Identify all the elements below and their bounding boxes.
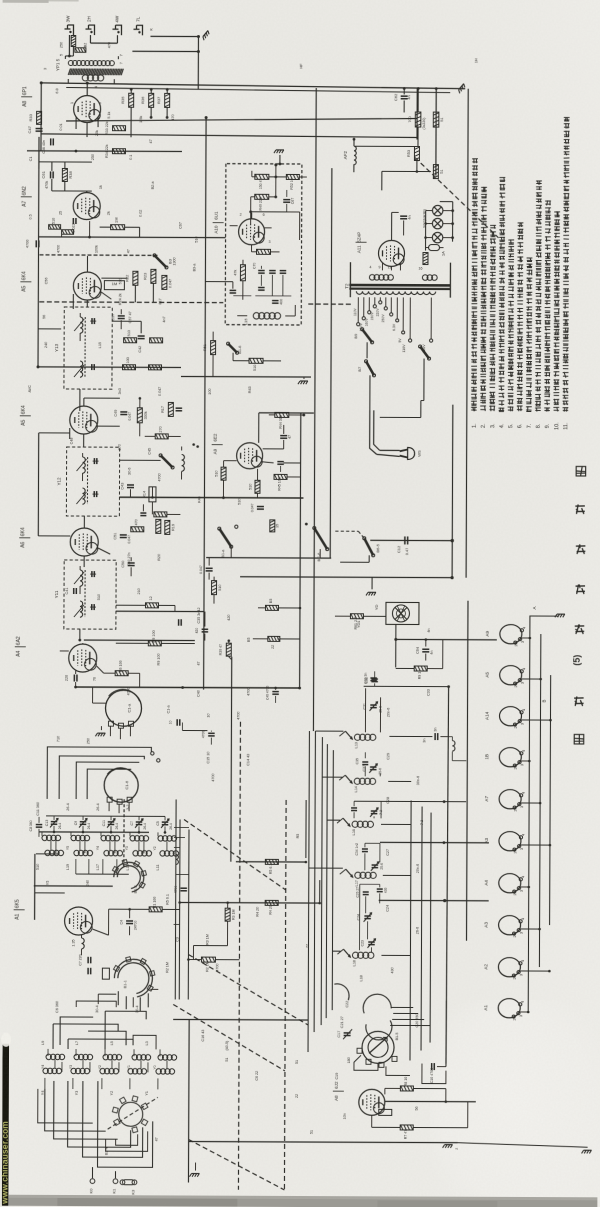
branding strip [2,1044,9,1206]
tube V5 [70,406,98,434]
wire ground stub2 [303,377,305,379]
terminal K1 [113,1179,118,1184]
wire rail x452 [451,405,454,578]
wire jack3 stub [89,35,91,43]
wire trimmer C11 leads [110,816,112,820]
resistor R52 [249,358,263,363]
switch contact B1-w [345,731,352,739]
wire sec1 rect [364,688,366,732]
resistor R42 [212,581,217,595]
wire y946 [193,945,227,947]
resistor R26 [150,338,163,343]
resistor R1 [149,907,162,912]
capacitor C73 [258,287,264,289]
wire bus y1101 [385,1100,476,1102]
wire below box [232,353,234,361]
wire loop L2 [59,756,144,799]
wire bus y238 [39,236,226,239]
capacitor C63 [400,215,407,217]
resistor R20 [131,527,144,532]
wire trimmer C9 leads [82,816,84,820]
wire dash diag top [415,157,499,237]
transformer YP1 secondary [82,75,88,81]
wire V9 right [93,929,109,935]
wire R46 leads [223,461,225,468]
wire base stub 6 [521,844,550,846]
wire left rail x39 top [40,83,42,151]
tube V7 [237,443,263,469]
node V7 grid [235,525,238,528]
tube base A2 [498,958,520,977]
note line 5 text [508,406,514,408]
wire R39 [228,641,230,644]
resistor R54 (3x220) [415,112,421,127]
choke AF2 [354,146,356,164]
trimmer C7 26-4 [136,821,142,823]
resistor R45 [274,474,287,479]
capacitor C57a [118,315,125,317]
wire jack drop x196 [197,37,199,90]
wire y900 dot [443,899,446,902]
wire jack2 stub [68,35,70,56]
branding glow [1,1033,11,1047]
jack J2 [88,25,94,35]
wire dash to B6 [335,530,358,532]
wire V6 left loop [37,433,39,536]
note line 1 text [471,406,477,408]
resistor R53 [414,146,419,160]
wire tubebase bus x551 [550,675,551,925]
capacitor C62 [401,95,408,97]
inductor L27 lower row [74,850,79,855]
bottom scan bar [0,1195,597,1207]
wire jack bus [132,50,198,52]
tube V9 6K5 [65,907,93,935]
wire R8 [385,1087,400,1089]
tube V3 [73,272,101,300]
inductor L16 [352,821,358,827]
wire R3 leads [227,903,229,908]
wire bundle x334 [332,750,333,1010]
fuse BX 1A [429,245,440,251]
wire rail x300 [300,413,301,688]
capacitor Y12 tune 2 [93,491,95,497]
wire loop U7 [133,1035,156,1049]
box V10 cathode [379,1109,392,1115]
wire rotor2 stubs [98,993,116,995]
wire YP1 pins [64,56,66,59]
wire V6 leads [83,516,85,528]
wire bus y1142 [189,1142,458,1143]
wire C50 leads [130,557,132,561]
IF transformer Y12 winding 1 [83,457,86,473]
wire y641-644 [161,639,163,641]
capacitor C14 [73,675,75,682]
wire col x190 [187,830,190,1000]
tube V11 5Z4P [378,240,404,266]
wire loop U3b [67,1039,69,1049]
note line 3 text [489,405,495,407]
wire C14 [75,670,77,674]
wire bus y641 [84,639,195,641]
capacitor C53 [176,407,182,409]
wire C64 [425,640,427,647]
wire C6c leads [204,612,206,627]
tube V2 6N2 [73,193,100,220]
wire bundle x328 [326,744,327,1018]
wire R54 bottom [417,128,419,147]
wire mid cluster [251,196,255,198]
capacitor C36 [351,807,357,809]
wire rail x314 [313,88,316,731]
transformer T1 heater winding b [422,275,428,281]
resistor R3 [225,908,230,921]
trimmer C37 [370,766,376,768]
capacitor C35b [178,619,180,625]
wire y801 out [381,800,466,802]
terminal K2-K3 link [120,1180,125,1185]
wire L5 [181,446,183,450]
wire V5 plate [83,398,85,406]
inductor L15 band2 lower [156,1069,161,1074]
wire bundle x316 [314,731,315,1032]
wire base stub 1 [522,637,530,639]
capacitor C10 [431,1063,433,1070]
capacitor C7c [87,968,89,974]
inductor L26 lower row [45,850,50,855]
wire base stub 10 [520,1011,528,1013]
resistor R22 [133,271,138,285]
wire trimmer C5 leads [164,816,166,820]
wire R62 [395,667,397,668]
IF transformer Y13 winding 1 [80,317,83,333]
trimmer C31 [370,704,376,706]
resistor R50 [257,249,271,254]
wire V11 plate [391,212,393,240]
wire V3 grid row [101,277,127,279]
capacitor C8 [36,824,42,826]
wire shield dash y303 [39,301,223,304]
wire C62 leads [403,88,405,94]
box R14 [149,487,156,502]
capacitor C43 [127,484,134,486]
inductor L22 upper row [71,835,76,840]
switch contact B1-v [343,949,350,957]
capacitor C44 [140,512,146,514]
wire bundle elbow 2 [322,776,343,778]
wire row links [50,841,52,850]
inductor L17 [355,872,361,878]
wire T1 tap 220R [430,298,432,339]
transformer YP1 core [68,68,70,75]
tuning gang C1-a stators [108,721,113,726]
wire bundle x323 [321,737,322,1025]
tube base A3 [499,916,521,935]
switch contact B1-y [343,818,350,826]
wire wafer dash [108,1097,158,1129]
wire bus y900 right [379,899,489,901]
wire R54 top [417,89,419,112]
wire loop L4 [87,769,131,799]
note line 7 text [526,406,532,408]
resistor R24 [162,275,167,289]
wire T1 tap extra [396,297,398,318]
wire R50 [251,245,253,252]
wire V2 mesh [61,232,63,237]
tuning gang C1-b [104,768,138,802]
resistor R9b [148,641,161,646]
transformer T1 core [349,284,450,287]
wire loop L1 [47,747,151,799]
capacitor C5c [208,732,214,734]
capacitor C40b [272,691,278,693]
wire sec5 mesh [360,883,380,885]
resistor R51 [211,341,216,355]
wire AVC bus y368 [38,366,181,369]
wire V7 plate loop [258,413,260,443]
wire bundle x423 [421,807,422,1051]
wire base stub 9 [520,970,549,972]
wire coil bank verticals [41,832,43,836]
ground top right of jacks [202,31,211,41]
resistor R40 [71,35,76,46]
capacitor C69 left [230,289,236,291]
wire left rail x38 mid [37,433,39,536]
wire V8 top [82,643,84,644]
resistor RU [423,253,428,265]
inductor L6 band2 upper [46,1054,51,1059]
capacitor C59 [138,335,145,337]
IF transformer Y11 shield box [64,560,116,629]
tube V8 6A2 [69,644,97,672]
rotor arc left [334,984,349,1000]
inductor L13 band2 lower [100,1068,105,1073]
wire loop U6 [76,1001,116,1007]
wire jacks top [150,35,198,37]
capacitor C51 [120,534,127,536]
wire rail x232 [230,657,233,862]
wire y1142 right [458,1143,588,1148]
resistor R49a [255,194,269,199]
wire gang a leads [109,726,111,736]
left margin light [0,1039,3,1206]
capacitor C50a [35,240,37,247]
wire rail x468 lower [467,601,468,941]
wire B8 down [423,359,425,401]
capacitor Y13 tune 2 [91,364,93,370]
wire V5 cathode [83,434,85,447]
tube base A1 [498,999,520,1018]
inductor L30 lower row [160,851,165,856]
wire bus y152 [27,150,182,153]
wire T1 tap 110 [357,297,359,322]
IF transformer Y13 core [84,317,86,377]
switch contact B1-z [346,869,353,877]
lamp XD3 [432,232,442,242]
wire cord pair [374,410,380,450]
wire T1 tap 110R [409,297,411,338]
ground box lower [298,381,308,384]
wire AF2 leads [353,139,355,146]
resistor R33 [37,111,42,124]
node jack bus [197,35,200,38]
wire T1 tap 0 [390,297,392,312]
trimmer C17 [344,1032,351,1034]
switch contact B1-x [345,775,352,783]
note line 2 text [480,405,486,407]
switch B1-6 [228,344,237,353]
resistor R35 [129,93,134,107]
IF transformer Y12 winding 2 [82,488,85,504]
transformer T1 primary [356,291,435,294]
switch B7 mains [366,361,374,375]
resistor R22s [268,636,280,641]
band switch rotor B1-5 [362,1031,394,1063]
capacitor C60 [50,138,52,145]
wire T1 tap 250 [385,297,387,306]
IF transformer Y12 shield box [66,447,119,516]
wire V11 pins [381,263,383,270]
wire main B+ bus top [41,83,465,89]
resistor R5 [265,859,278,864]
wire Y12 internals [82,453,84,457]
resistor R31 [62,230,74,235]
wire V1 cathode [75,129,77,151]
node row y445 [192,443,195,446]
wire under coils [75,859,77,874]
wire rotor B1-5 tails [354,1055,378,1070]
capacitor C72 [280,270,286,272]
inductor L11 band2 lower [43,1068,48,1073]
wire bus y498 [119,496,303,499]
wire R7 [371,1115,373,1127]
wire V1 pins [75,117,77,129]
bottom scan bar shade [0,1198,597,1207]
capacitor C15c [176,719,178,725]
loudspeaker frame [386,602,419,624]
inductor L15 osc coil [253,313,259,319]
wire loop D2 [83,1081,143,1157]
tube V6 [70,528,98,556]
capacitor C32b [371,678,377,680]
wire rail x449 [446,687,449,1064]
wire loop D7 [116,1134,138,1145]
inductor L21 upper row [42,835,47,840]
tube V1 6P1 [74,96,101,123]
wire C10 loop [422,1064,446,1084]
wire rail x434 [435,89,437,176]
wire bundle elbow 3 [327,819,340,821]
ground mains [366,592,376,595]
resistor R30 [49,225,61,230]
tube base 1B [499,748,521,767]
resistor R15 [154,512,167,517]
wire y842 dot [443,841,446,844]
trimmer C38 [371,810,377,812]
wire y171 link [382,170,431,172]
wire rail x415 [416,89,418,140]
wire R6 [97,666,104,673]
wire lamp left rail [426,210,433,212]
resistor R17 [168,402,173,416]
switch B4-a [161,455,173,467]
IF transformer Y11 core [84,570,86,617]
wire ground bus y577 [240,576,452,579]
wire B6 bottom [368,555,370,562]
ground bus top right [457,84,466,94]
trimmer C11 26-4 [108,821,114,823]
wire bus y862 [236,861,306,863]
wire y606 [116,604,145,606]
jack J1 [67,25,73,35]
resistor R36 [149,93,154,107]
resistor B5r [265,605,278,610]
IF transformer Y13 winding 2 [80,361,83,377]
wire Y13 out [112,320,141,322]
caption char [574,697,584,699]
capacitor C61 [50,171,52,178]
caption char [576,585,586,587]
capacitor C75 [280,435,287,437]
wire bus y842 right [380,841,489,843]
wire box mesh [242,260,244,265]
wire bundle x310 [308,731,309,1052]
wire tubebase bus x541 [539,634,540,967]
tube base A14 [499,707,521,726]
inductor L14 band2 lower [128,1069,133,1074]
wire loop U2b [52,1024,54,1049]
tuning gang C1-b stators [107,797,112,802]
capacitor C34 [362,848,368,850]
wire speaker bottom [395,624,397,667]
capacitor C49 [120,411,127,413]
inductor L3 [81,938,84,949]
capacitor C6c [202,628,208,630]
wire Y13 bottoms [79,389,81,411]
resistor R28 [123,365,136,370]
resistor R6 [115,671,128,676]
lamp XD2 [432,218,442,228]
resistor R33a [113,126,126,131]
wire col x177 [174,799,177,999]
wire base stub 8 [521,928,540,930]
tuning gang C1-a [105,690,141,726]
caption char [574,734,584,744]
wire y686 [364,685,449,687]
capacitor C50 [128,562,135,564]
wire base stub 5 [521,802,540,804]
wire YP1 sec left [41,82,68,84]
IF transformer Y11 winding 1 [80,570,83,586]
note line 6 text [517,405,523,407]
capacitor C71 [269,270,275,272]
inductor L5 [182,454,185,471]
wire bank2 stubs [61,1062,63,1072]
wire Y12 bottom mesh [119,496,130,498]
wire loop U2 [53,1024,118,1031]
wire y192 [52,190,92,192]
inductor L14 [354,778,360,784]
capacitor C33s [434,733,436,740]
wire R55 bottom [435,128,437,164]
capacitor C5B [180,887,186,889]
capacitor C30 [370,677,376,679]
inductor L23 upper row [101,835,106,840]
loudspeaker cone [392,605,409,622]
caption char [576,466,586,476]
caption char [576,545,586,547]
wire YP1 top taps [65,55,73,57]
